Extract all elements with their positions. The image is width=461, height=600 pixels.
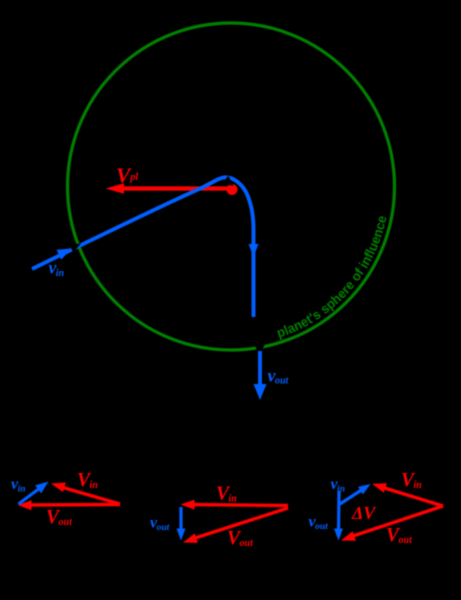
red V_out arrow	[347, 506, 443, 538]
svg-text:ΔV: ΔV	[351, 503, 377, 523]
entry arrowhead black over circle	[69, 239, 83, 252]
exit velocity arrow below circle	[258, 351, 262, 389]
blue dv arrow	[179, 507, 182, 534]
blue dv arrow	[19, 485, 45, 504]
red V_out arrow	[189, 508, 288, 540]
red V_in arrow	[56, 486, 120, 505]
planet dot	[227, 184, 238, 195]
exit arrowhead blue	[254, 384, 267, 400]
planet velocity arrowhead	[106, 183, 125, 194]
planet velocity red arrow	[121, 186, 228, 190]
blue v_in arrow	[340, 487, 366, 504]
trajectory (blue hyperbola)	[32, 177, 254, 317]
red V_out arrow	[24, 503, 120, 507]
sphere of influence circle	[68, 23, 395, 350]
apex arrowhead black	[222, 176, 236, 190]
red V_in arrow	[378, 486, 443, 506]
red V_in arrow	[187, 505, 288, 506]
circle-crossing arrowhead black	[254, 343, 266, 355]
blue v_out arrow	[337, 491, 341, 534]
entry arrowhead blue	[57, 244, 74, 260]
descent arrowhead blue	[249, 244, 259, 257]
